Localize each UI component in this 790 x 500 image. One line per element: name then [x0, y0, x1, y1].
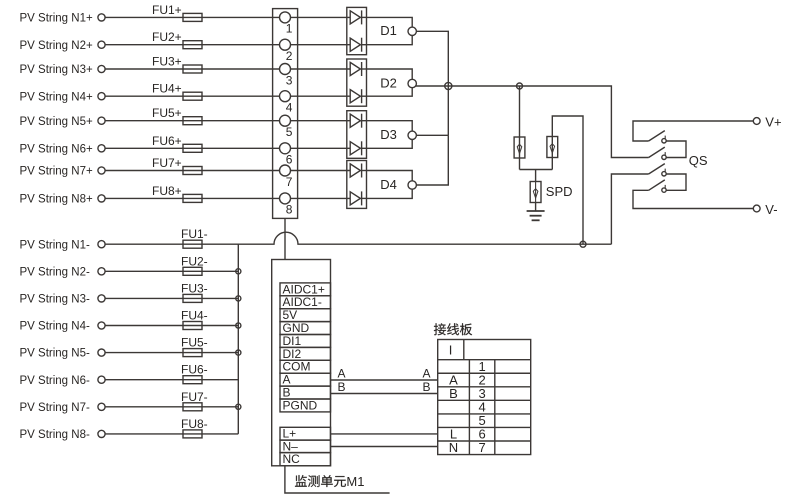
- wire pole4 lead to V- run: [633, 190, 753, 208]
- wire positive run down through SPD1: [519, 86, 521, 170]
- terminal board row divider below row 6: [438, 440, 531, 442]
- svg-text:PV String N2+: PV String N2+: [20, 40, 93, 52]
- wire L+ from M1 to terminal board: [331, 433, 438, 435]
- wire D3 lower output to merge corner: [367, 140, 413, 149]
- svg-text:AIDC1-: AIDC1-: [283, 295, 322, 309]
- terminal circle N6+: [98, 145, 105, 152]
- wire D1 output to collector bus: [416, 31, 448, 86]
- terminal strip box: [273, 9, 298, 219]
- M1 pin cell NC: [280, 453, 331, 466]
- svg-text:SPD: SPD: [546, 184, 573, 199]
- svg-text:PV String N4+: PV String N4+: [20, 91, 93, 103]
- M1 pin cell A: [280, 373, 331, 386]
- wire D3 output to collector bus: [416, 134, 448, 136]
- terminal circle N2-: [98, 268, 105, 275]
- svg-text:V+: V+: [765, 115, 781, 130]
- fuse FU1-: [183, 240, 202, 248]
- wire D4 lower output to merge corner: [367, 189, 413, 198]
- terminal circle N4+: [98, 93, 105, 100]
- svg-text:GND: GND: [283, 321, 310, 335]
- M1 pin cell GND: [280, 322, 331, 335]
- svg-text:FU3-: FU3-: [181, 281, 208, 295]
- M1 pin cell DI2: [280, 347, 331, 360]
- svg-text:5V: 5V: [283, 308, 298, 322]
- terminal circle N1-: [98, 241, 105, 248]
- diode symbol in D2 at row y=96.2: [350, 90, 360, 103]
- svg-text:PV String N3-: PV String N3-: [20, 294, 90, 306]
- M1 pin cell 5V: [280, 309, 331, 322]
- diode symbol in D3 at row y=120.7: [350, 114, 360, 127]
- wire terminal strip to monitor unit M1: [284, 218, 286, 259]
- wire SPD2 top to negative bus tap: [552, 116, 583, 244]
- output node circle of D2: [408, 79, 416, 87]
- output node circle of D3: [408, 131, 416, 139]
- terminal circle N3-: [98, 295, 105, 302]
- terminal strip circle 5: [280, 115, 291, 126]
- svg-text:PV String N6+: PV String N6+: [20, 143, 93, 155]
- link wire pole3 contact to pole4 contact: [666, 174, 686, 190]
- svg-text:5: 5: [286, 125, 293, 139]
- svg-text:N: N: [449, 440, 458, 455]
- terminal circle N1+: [98, 14, 105, 21]
- svg-text:COM: COM: [283, 360, 311, 374]
- terminal circle V-: [753, 205, 760, 212]
- wire N3- terminal through fuse FU3-: [105, 297, 239, 299]
- wire N8- terminal through fuse FU8-: [105, 433, 239, 435]
- terminal strip circle 2: [280, 39, 291, 50]
- diode symbol in D1 at row y=17.4: [350, 11, 360, 24]
- svg-text:A: A: [338, 366, 346, 380]
- wire terminal 8 to diode box: [291, 197, 351, 199]
- terminal strip circle 3: [280, 64, 291, 75]
- svg-text:3: 3: [286, 73, 293, 87]
- diode box D1: [347, 7, 367, 54]
- terminal circle V+: [753, 118, 760, 125]
- svg-text:DI1: DI1: [283, 334, 302, 348]
- svg-text:7: 7: [286, 175, 293, 189]
- svg-text:PV String N8+: PV String N8+: [20, 194, 93, 206]
- svg-text:FU1-: FU1-: [181, 227, 208, 241]
- svg-text:4: 4: [286, 101, 293, 115]
- fuse FU7+: [183, 167, 202, 175]
- wire switch pole1 lead to V+ run: [633, 121, 753, 141]
- svg-text:D3: D3: [380, 127, 397, 142]
- fuse FU8+: [183, 194, 202, 202]
- svg-text:7: 7: [478, 440, 485, 455]
- collector bus vertical segment: [447, 86, 449, 135]
- M1 pin cell AIDC1-: [280, 296, 331, 309]
- switch QS pole 1 fixed contact: [662, 139, 666, 143]
- diode symbol in D4 at row y=170.5: [350, 164, 360, 177]
- wire B from M1 to terminal board: [331, 393, 438, 395]
- terminal strip circle 8: [280, 193, 291, 204]
- terminal circle N4-: [98, 322, 105, 329]
- svg-text:D4: D4: [380, 177, 397, 192]
- svg-text:FU3+: FU3+: [152, 55, 182, 69]
- wire D4 output to collector bus: [416, 135, 448, 185]
- wire D1 upper output to merge corner: [367, 17, 413, 27]
- surge arrester SPD1: [514, 137, 525, 158]
- terminal circle N8-: [98, 430, 105, 437]
- svg-text:FU4-: FU4-: [181, 309, 208, 323]
- terminal board row divider below row 4: [438, 413, 531, 415]
- junction node SPD2 tap on negative bus: [580, 241, 586, 247]
- output node circle of D1: [408, 27, 416, 35]
- svg-text:FU5+: FU5+: [152, 106, 182, 120]
- junction node N3- on collector bus: [236, 296, 241, 301]
- wire N7+ terminal to fuse FU7+ and through to terminal strip: [105, 170, 280, 172]
- wire N5- terminal through fuse FU5-: [105, 352, 239, 354]
- svg-text:PV String N6-: PV String N6-: [20, 375, 90, 387]
- wire D2 lower output to merge corner: [367, 88, 413, 97]
- terminal board row divider below row 1: [438, 372, 531, 374]
- wire N4- terminal through fuse FU4-: [105, 325, 239, 327]
- svg-text:B: B: [423, 380, 431, 394]
- wire N3+ terminal to fuse FU3+ and through to terminal strip: [105, 68, 280, 70]
- fuse FU8-: [183, 430, 202, 438]
- wire N1+ terminal to fuse FU1+ and through to terminal strip: [105, 16, 280, 18]
- terminal circle N7-: [98, 403, 105, 410]
- terminal strip circle 1: [280, 12, 291, 23]
- terminal board row divider below row 2: [438, 386, 531, 388]
- svg-text:A: A: [423, 366, 431, 380]
- terminal strip circle 6: [280, 143, 291, 154]
- switch QS pole 3 blade: [649, 164, 665, 174]
- svg-text:D1: D1: [380, 23, 397, 38]
- wire D2 upper output to merge corner: [367, 69, 413, 79]
- M1 pin cell PGND: [280, 399, 331, 412]
- wire terminal 4 to diode box: [291, 95, 351, 97]
- terminal strip circle 7: [280, 165, 291, 176]
- svg-text:6: 6: [286, 153, 293, 167]
- svg-text:PV String N4-: PV String N4-: [20, 321, 90, 333]
- junction node N5- on collector bus: [236, 350, 241, 355]
- wire terminal 6 to diode box: [291, 147, 351, 149]
- svg-text:FU7+: FU7+: [152, 156, 182, 170]
- diode symbol in D3 at row y=148.3: [350, 142, 360, 155]
- wire D4 upper output to merge corner: [367, 171, 413, 181]
- wire N5+ terminal to fuse FU5+ and through to terminal strip: [105, 120, 280, 122]
- wire D1 lower output to merge corner: [367, 36, 413, 45]
- fuse FU4-: [183, 322, 202, 330]
- terminal board column dividers: [468, 360, 470, 455]
- terminal circle N5-: [98, 349, 105, 356]
- terminal circle N3+: [98, 65, 105, 72]
- svg-text:B: B: [283, 386, 291, 400]
- svg-text:B: B: [449, 386, 458, 401]
- M1 pin cell AIDC1+: [280, 283, 331, 296]
- diode box D4: [347, 161, 367, 209]
- switch QS pole 3 fixed contact: [662, 172, 666, 176]
- label monitor unit M1: [295, 475, 346, 487]
- wire D2 output / positive main run to switch feed: [416, 86, 649, 158]
- svg-text:FU6-: FU6-: [181, 363, 208, 377]
- svg-text:PV String N1+: PV String N1+: [20, 13, 93, 25]
- wire SPD3 to ground: [535, 203, 537, 212]
- svg-text:PV String N5+: PV String N5+: [20, 116, 93, 128]
- M1 pin cell L+: [280, 427, 331, 440]
- link wire pole1 contact to pole2 contact: [666, 141, 686, 158]
- svg-text:DI2: DI2: [283, 347, 302, 361]
- svg-text:NC: NC: [283, 452, 301, 466]
- svg-text:8: 8: [286, 203, 293, 217]
- wire SPD1 and SPD2 bottoms to SPD3: [520, 169, 553, 171]
- wire D3 upper output to merge corner: [367, 121, 413, 131]
- ground symbol: [527, 210, 545, 212]
- switch QS pole 2 blade: [649, 147, 665, 157]
- wire A from M1 to terminal board: [331, 379, 438, 381]
- svg-text:FU1+: FU1+: [152, 3, 182, 17]
- diode box D2: [347, 59, 367, 106]
- M1 pin cell N-: [280, 440, 331, 453]
- svg-text:AIDC1+: AIDC1+: [283, 282, 325, 296]
- switch QS pole 1 blade: [649, 131, 665, 141]
- terminal strip circle 4: [280, 91, 291, 102]
- monitor unit M1 box: [272, 260, 331, 466]
- svg-text:FU8+: FU8+: [152, 184, 182, 198]
- wire N2+ terminal to fuse FU2+ and through to terminal strip: [105, 44, 280, 46]
- svg-text:A: A: [283, 373, 291, 387]
- junction node N7- on collector bus: [236, 404, 241, 409]
- svg-text:PV String N2-: PV String N2-: [20, 266, 90, 278]
- fuse FU7-: [183, 403, 202, 411]
- wire N8+ terminal to fuse FU8+ and through to terminal strip: [105, 197, 280, 199]
- svg-text:QS: QS: [689, 153, 708, 168]
- fuse FU4+: [183, 92, 202, 100]
- terminal board row I divider: [438, 359, 531, 361]
- svg-text:PGND: PGND: [283, 398, 318, 412]
- svg-text:PV String N7+: PV String N7+: [20, 166, 93, 178]
- diode symbol in D1 at row y=44.7: [350, 38, 360, 51]
- svg-text:B: B: [338, 380, 346, 394]
- negative collector bus vertical: [237, 244, 239, 434]
- label terminal board (jie xian ban): [434, 323, 472, 335]
- diode box D3: [347, 111, 367, 159]
- junction node N2- on collector bus: [236, 269, 241, 274]
- M1 pin cell B: [280, 386, 331, 399]
- svg-text:PV String N8-: PV String N8-: [20, 429, 90, 441]
- M1 leader line: [285, 466, 390, 493]
- wire terminal 2 to diode box: [291, 44, 351, 46]
- wire negative bus up to pole3 lead: [611, 174, 648, 244]
- wire N4+ terminal to fuse FU4+ and through to terminal strip: [105, 95, 280, 97]
- svg-text:FU6+: FU6+: [152, 134, 182, 148]
- wire terminal 1 to diode box: [291, 16, 351, 18]
- wire N2- terminal through fuse FU2-: [105, 270, 239, 272]
- fuse FU1+: [183, 13, 202, 21]
- M1 pin cell COM: [280, 360, 331, 373]
- svg-text:FU5-: FU5-: [181, 336, 208, 350]
- terminal board row divider below row 5: [438, 426, 531, 428]
- svg-text:FU7-: FU7-: [181, 390, 208, 404]
- terminal circle N2+: [98, 41, 105, 48]
- switch QS pole 4 blade: [649, 180, 665, 190]
- svg-text:PV String N3+: PV String N3+: [20, 64, 93, 76]
- surge arrester SPD3: [530, 182, 541, 203]
- diode symbol in D2 at row y=69.0: [350, 62, 360, 75]
- junction node at collector bus and positive run: [445, 82, 452, 89]
- fuse FU6+: [183, 144, 202, 152]
- M1 pin cell DI1: [280, 335, 331, 348]
- wire N6- terminal through fuse FU6-: [105, 379, 239, 381]
- switch QS pole 4 fixed contact: [662, 188, 666, 192]
- switch QS pole 2 fixed contact: [662, 155, 666, 159]
- output node circle of D4: [408, 181, 416, 189]
- fuse FU6-: [183, 376, 202, 384]
- surge arrester SPD2: [547, 137, 558, 158]
- svg-text:I: I: [449, 343, 453, 358]
- fuse FU3-: [183, 294, 202, 302]
- terminal circle N5+: [98, 117, 105, 124]
- junction node at SPD tap on positive run: [517, 83, 523, 89]
- fuse FU5-: [183, 349, 202, 357]
- terminal circle N8+: [98, 195, 105, 202]
- negative bus from N1- with hop arc over monitor wire: [105, 232, 612, 244]
- fuse FU5+: [183, 117, 202, 125]
- svg-text:PV String N7-: PV String N7-: [20, 402, 90, 414]
- svg-text:V-: V-: [765, 202, 777, 217]
- wire N- from M1 to terminal board: [331, 446, 438, 448]
- svg-text:D2: D2: [380, 75, 397, 90]
- wire terminal 5 to diode box: [291, 120, 351, 122]
- wire terminal 7 to diode box: [291, 170, 351, 172]
- fuse FU2-: [183, 267, 202, 275]
- svg-text:FU2+: FU2+: [152, 30, 182, 44]
- svg-text:1: 1: [286, 22, 293, 36]
- junction node N4- on collector bus: [236, 323, 241, 328]
- svg-text:FU2-: FU2-: [181, 254, 208, 268]
- terminal circle N7+: [98, 167, 105, 174]
- terminal board outer box: [438, 340, 531, 455]
- diode symbol in D4 at row y=198.4: [350, 192, 360, 205]
- svg-text:FU8-: FU8-: [181, 417, 208, 431]
- svg-text:PV String N1-: PV String N1-: [20, 239, 90, 251]
- fuse FU2+: [183, 41, 202, 49]
- fuse FU3+: [183, 65, 202, 73]
- wire N7- terminal through fuse FU7-: [105, 406, 239, 408]
- svg-text:PV String N5-: PV String N5-: [20, 348, 90, 360]
- svg-text:2: 2: [286, 49, 293, 63]
- wire N6+ terminal to fuse FU6+ and through to terminal strip: [105, 147, 280, 149]
- svg-text:M1: M1: [346, 474, 364, 489]
- svg-text:FU4+: FU4+: [152, 82, 182, 96]
- terminal circle N6-: [98, 376, 105, 383]
- terminal board row divider below row 3: [438, 399, 531, 401]
- wire terminal 3 to diode box: [291, 68, 351, 70]
